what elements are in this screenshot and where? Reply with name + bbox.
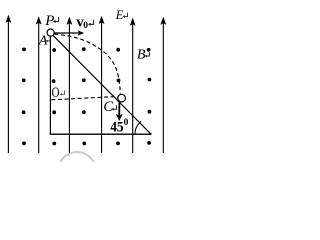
triangle bottom side (50, 133, 152, 135)
E field line 3 (68, 23, 70, 153)
arrowhead E3 (67, 17, 72, 24)
arrowhead E2 (36, 17, 41, 24)
return mark after E (123, 13, 128, 18)
45 degree angle arc (135, 121, 141, 134)
watermark arc (gray, bottom) (58, 152, 96, 190)
svg-text:0: 0 (124, 118, 129, 128)
svg-text:B: B (137, 48, 146, 63)
ball C (118, 94, 126, 102)
ball P (47, 29, 54, 36)
return mark after O (gray) (60, 90, 65, 95)
triangle left vertical side (49, 34, 51, 134)
arrowhead E5 (130, 18, 135, 25)
E field line 5 (132, 24, 134, 153)
arrowhead E6 (161, 17, 166, 24)
dashed line O to C (51, 97, 117, 100)
triangle hypotenuse (45 deg incline) (51, 33, 151, 134)
svg-text:C: C (103, 99, 113, 115)
arrowhead E1 (6, 15, 11, 22)
return mark after B (145, 52, 150, 57)
svg-text:45: 45 (110, 119, 123, 135)
B-field dot grid (22, 47, 152, 145)
E field line 2 (38, 23, 40, 154)
svg-text:E: E (115, 8, 124, 22)
svg-text:0: 0 (83, 21, 88, 31)
velocity arrow at C (downward, thick) (118, 103, 120, 116)
return mark after A (46, 37, 51, 42)
return mark after C (112, 105, 117, 110)
return mark after P (53, 17, 59, 23)
v0 velocity arrow (54, 32, 79, 34)
return mark after v0 (88, 20, 94, 26)
svg-text:O: O (52, 85, 60, 101)
E field line 6 (162, 23, 164, 153)
dashed trajectory P to C (55, 34, 121, 94)
svg-text:P: P (44, 13, 54, 29)
E field line 4 (101, 22, 103, 153)
arrowhead E4 (99, 16, 104, 23)
E field line 1 (7, 21, 9, 153)
